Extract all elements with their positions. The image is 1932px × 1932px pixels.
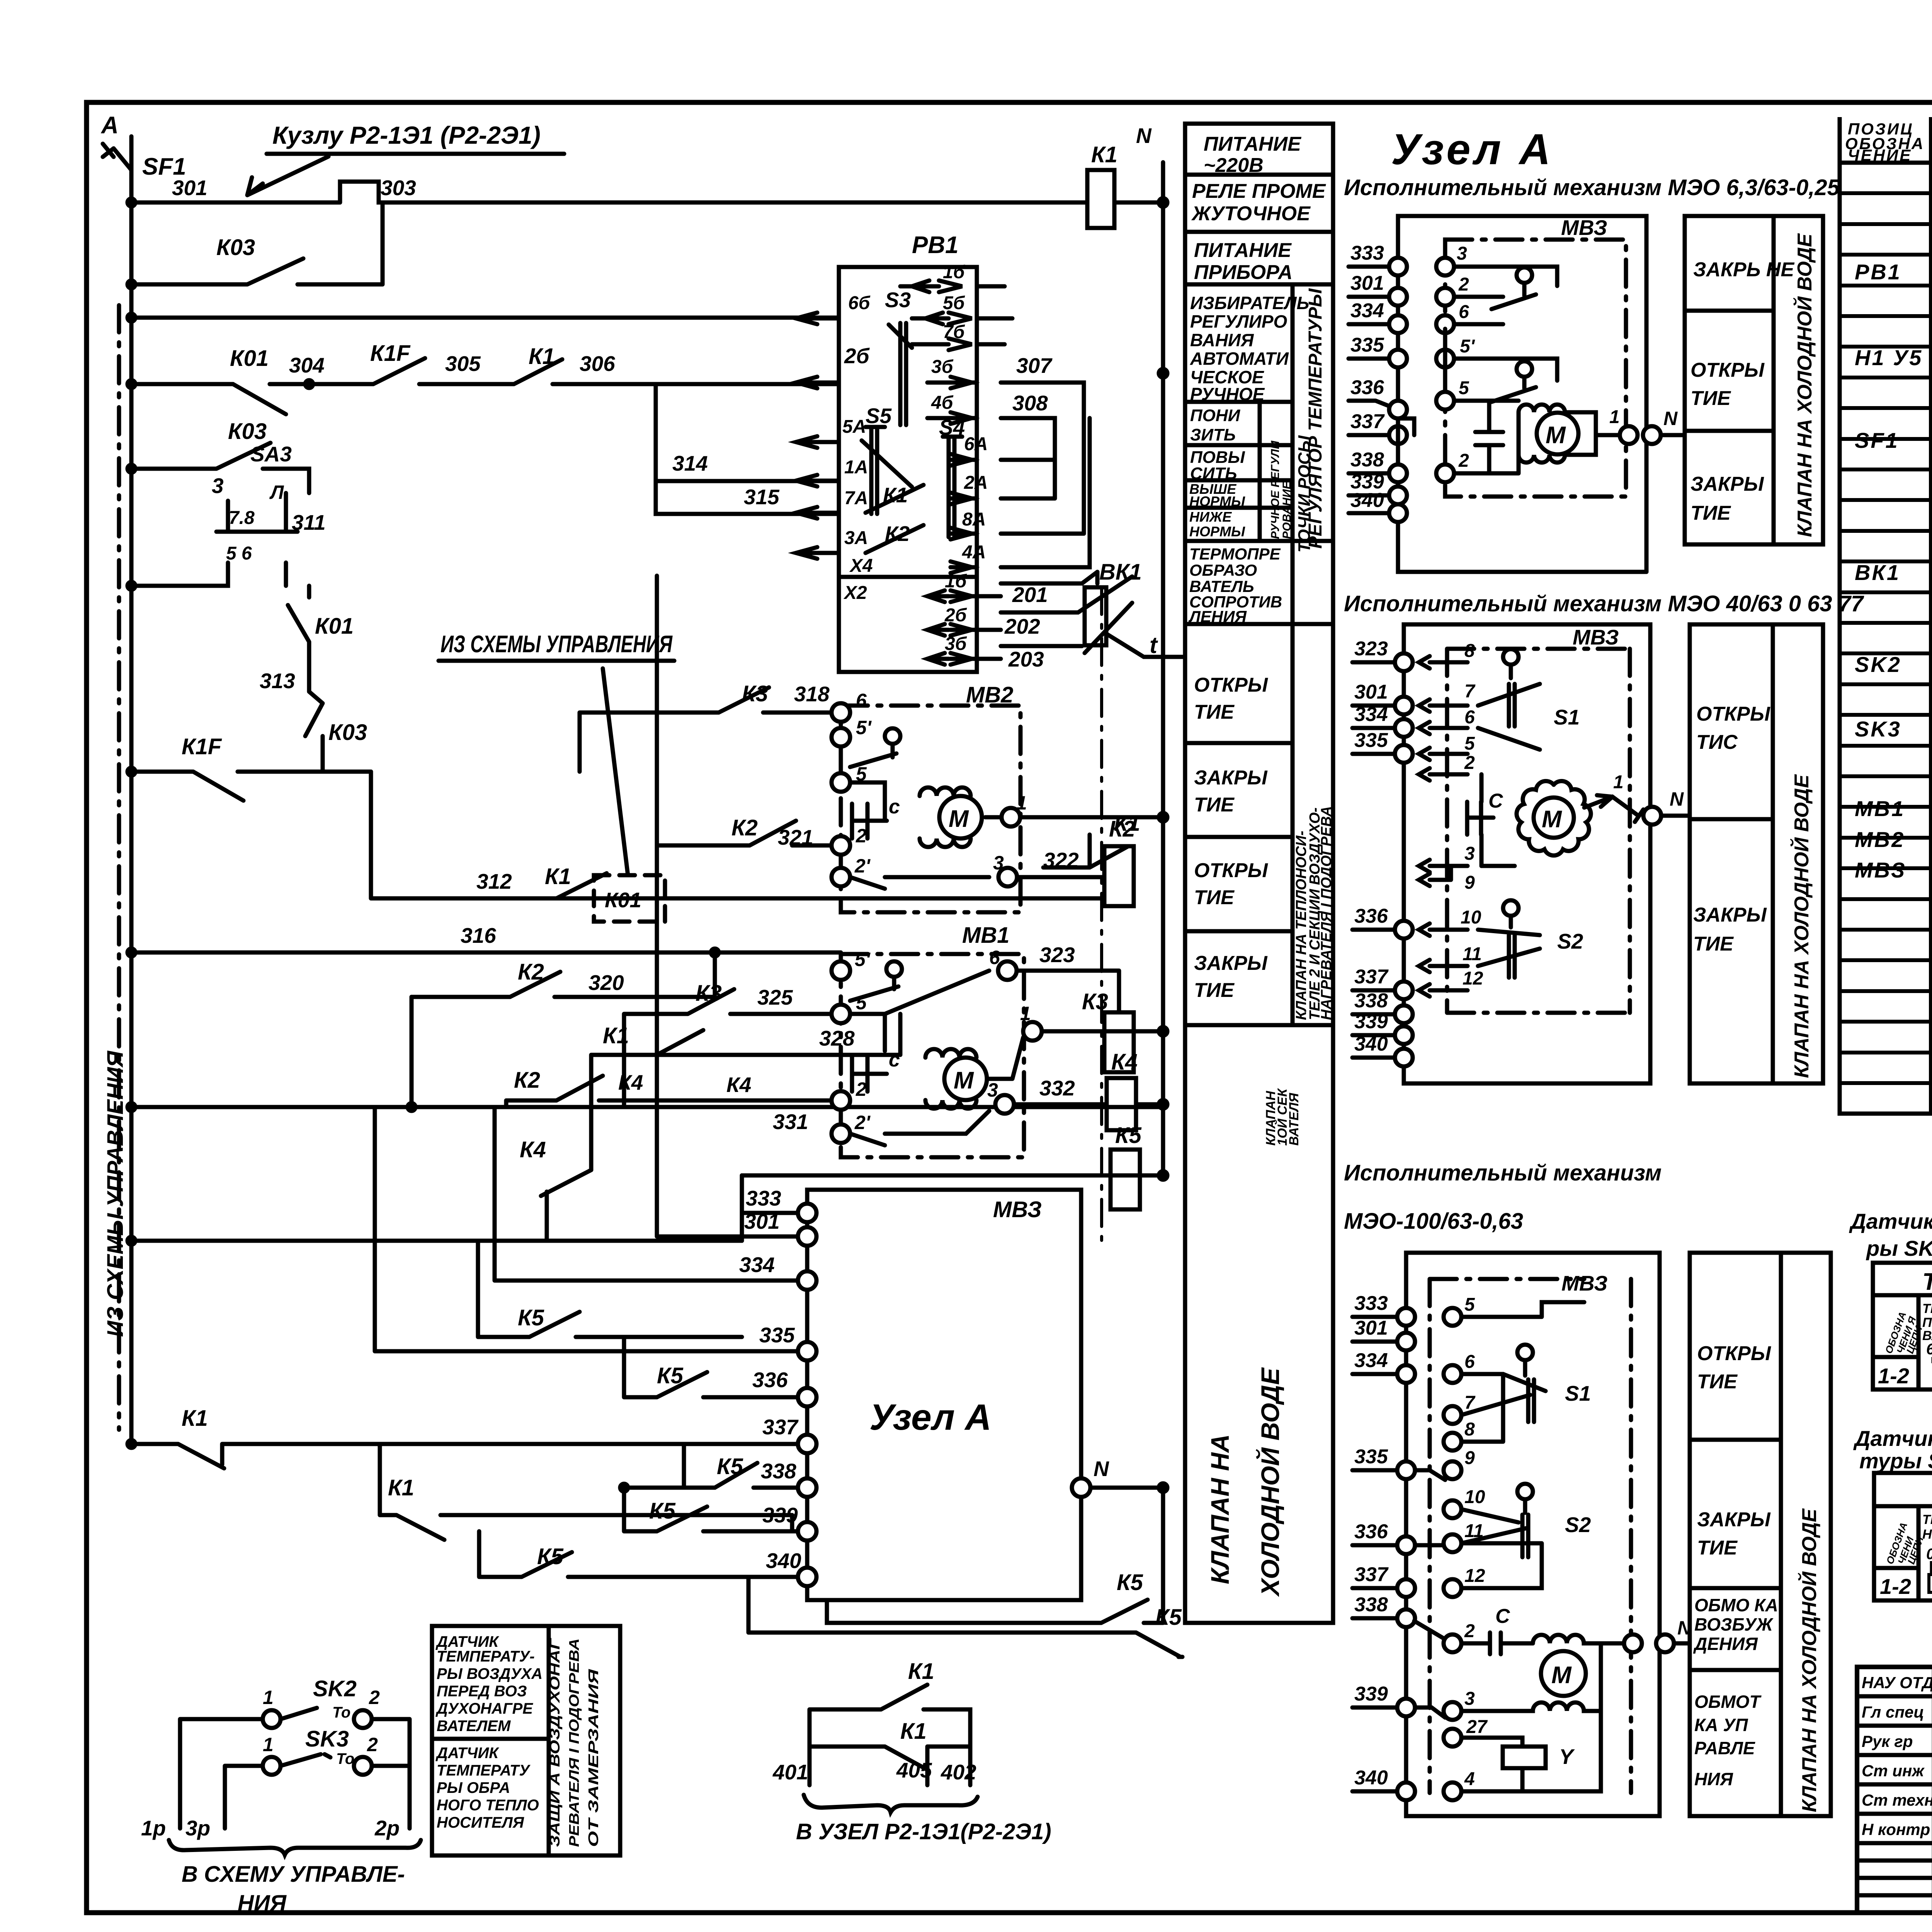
svg-text:8А: 8А (962, 509, 986, 530)
wire 321 contact K2 (657, 815, 832, 898)
svg-text:Н контр: Н контр (1862, 1820, 1930, 1838)
svg-text:ХОЛОДНОЙ ВОДЕ: ХОЛОДНОЙ ВОДЕ (1255, 1367, 1284, 1597)
svg-text:6: 6 (1464, 707, 1475, 728)
svg-text:К03: К03 (228, 419, 267, 444)
svg-text:N: N (1663, 408, 1678, 429)
svg-text:2б: 2б (844, 344, 870, 368)
svg-text:ТИЕ: ТИЕ (1194, 701, 1235, 723)
svg-text:К4: К4 (520, 1137, 546, 1162)
svg-text:338: 338 (1354, 1594, 1388, 1616)
svg-text:5б: 5б (943, 293, 965, 313)
svg-text:336: 336 (1354, 905, 1388, 927)
cell ПОНИЗИТЬ (1190, 406, 1241, 444)
sensor SK2 contact (180, 1676, 410, 1828)
svg-text:РУЧНОЕ: РУЧНОЕ (1190, 384, 1265, 404)
feeder block to Р2-1Э1 with contacts К1 (772, 1659, 1051, 1844)
svg-text:с: с (889, 796, 900, 818)
svg-text:7А: 7А (844, 488, 868, 509)
svg-text:3: 3 (1457, 243, 1467, 264)
wire 338 contact K5 (684, 1444, 807, 1488)
svg-text:К2: К2 (518, 959, 544, 985)
svg-text:РВ1: РВ1 (912, 232, 959, 259)
svg-text:К3: К3 (696, 981, 722, 1006)
svg-text:НИЯ: НИЯ (238, 1891, 287, 1916)
circuit 1 wire 338 + terminal 2 (1349, 449, 1519, 482)
wire 335 (375, 1107, 807, 1351)
svg-text:3: 3 (1464, 844, 1475, 864)
svg-text:339: 339 (1354, 1683, 1388, 1705)
svg-text:ЗАКРЬ НЕ: ЗАКРЬ НЕ (1693, 259, 1794, 281)
svg-text:ЗАКРЫ: ЗАКРЫ (1194, 952, 1268, 975)
svg-text:НИЖЕ: НИЖЕ (1189, 509, 1232, 525)
svg-text:РУЧНОЕ РЕГУЛИ: РУЧНОЕ РЕГУЛИ (1269, 440, 1282, 539)
svg-text:1: 1 (263, 1734, 274, 1755)
svg-text:1: 1 (1613, 772, 1624, 793)
svg-text:ТИЕ: ТИЕ (1194, 979, 1235, 1002)
svg-text:2р: 2р (374, 1816, 400, 1840)
svg-text:1-2: 1-2 (1880, 1574, 1911, 1599)
svg-text:3: 3 (993, 852, 1004, 874)
svg-text:340: 340 (766, 1549, 801, 1573)
svg-text:Ст инж: Ст инж (1862, 1762, 1925, 1780)
svg-text:339: 339 (1354, 1010, 1388, 1033)
svg-text:1: 1 (263, 1687, 274, 1708)
wire 337 contact K1 (128, 1406, 807, 1468)
wire 339 contact K5 (620, 1484, 807, 1531)
svg-text:ПОНИ: ПОНИ (1190, 406, 1241, 425)
svg-text:ОТКРЫ: ОТКРЫ (1697, 1342, 1771, 1365)
wire 303 (128, 176, 1087, 206)
svg-text:3: 3 (212, 474, 224, 498)
svg-text:К1: К1 (1091, 142, 1117, 167)
svg-text:2: 2 (367, 1734, 378, 1755)
terminals on Узел А (798, 1204, 816, 1586)
coil K4 wire 332 (1014, 1049, 1167, 1130)
svg-text:333: 333 (1350, 242, 1384, 264)
svg-text:ЗАКРЫ: ЗАКРЫ (1693, 904, 1767, 926)
svg-text:ИЗБИРАТЕЛЬ: ИЗБИРАТЕЛЬ (1190, 293, 1309, 313)
svg-text:Х2: Х2 (843, 583, 867, 603)
svg-text:То: То (336, 1750, 354, 1767)
circuit 3 contact S2 (1461, 1484, 1591, 1557)
cell ТЕРМОПРЕОБРАЗОВАТЕЛЬ (1188, 545, 1282, 626)
cell ОТКРЫТИЕ 1 (1194, 674, 1268, 723)
contact chain K01 313 K03 (260, 586, 367, 772)
svg-text:1б: 1б (945, 571, 967, 592)
svg-text:5: 5 (1464, 1294, 1475, 1315)
svg-text:301: 301 (1350, 272, 1384, 294)
component table row rules (1840, 163, 1932, 1083)
svg-text:5': 5' (855, 949, 871, 970)
contact K01 bypass box (594, 811, 1140, 922)
sensor SK3 contact (225, 1726, 410, 1828)
svg-text:8: 8 (1464, 641, 1475, 661)
svg-text:SK2: SK2 (1855, 652, 1901, 677)
regulator РВ1 (796, 232, 1012, 672)
svg-text:338: 338 (1350, 449, 1384, 471)
svg-text:То: То (332, 1704, 350, 1721)
wire 312 (371, 772, 1102, 898)
svg-text:Л: Л (269, 481, 284, 503)
svg-text:2': 2' (854, 855, 871, 877)
svg-text:6: 6 (1459, 302, 1469, 322)
svg-text:С: С (1495, 1605, 1510, 1628)
svg-text:4: 4 (1464, 1769, 1475, 1789)
svg-text:К2: К2 (514, 1068, 540, 1093)
svg-text:9: 9 (1464, 872, 1475, 893)
rotated sub labels (1269, 440, 1293, 539)
svg-text:НИЯ: НИЯ (1694, 1769, 1733, 1789)
svg-text:5: 5 (1459, 378, 1469, 398)
svg-text:МЭО-100/63-0,63: МЭО-100/63-0,63 (1344, 1209, 1523, 1234)
terminal N of Узел А (1072, 1457, 1167, 1497)
svg-text:Н1 У5: Н1 У5 (1855, 345, 1923, 370)
svg-text:8: 8 (1464, 1419, 1475, 1440)
svg-text:К5: К5 (657, 1363, 684, 1388)
svg-text:303: 303 (381, 176, 416, 200)
svg-text:К1: К1 (182, 1406, 208, 1431)
thermo sensor BK1 (1001, 560, 1182, 671)
wire 301 (657, 576, 807, 1236)
svg-text:К1: К1 (388, 1475, 414, 1500)
svg-text:301: 301 (1354, 681, 1388, 703)
wires 314 315 (656, 384, 839, 514)
wire 318 contact K3 (580, 681, 841, 772)
svg-text:339: 339 (762, 1503, 798, 1527)
capacitor C (852, 804, 887, 838)
function column frame (1185, 124, 1333, 1623)
wire 336 contact K5 (624, 1337, 807, 1397)
svg-text:3б: 3б (945, 634, 967, 654)
svg-text:2: 2 (855, 1078, 867, 1100)
svg-text:ВАТЕЛЯ: ВАТЕЛЯ (1287, 1092, 1301, 1146)
svg-text:ТЕРМОПРЕ: ТЕРМОПРЕ (1189, 545, 1281, 563)
svg-text:К1F: К1F (182, 734, 222, 759)
svg-text:М: М (1551, 1662, 1572, 1689)
diagram table ТУДЭ 4 (1874, 1473, 1932, 1600)
svg-text:К01: К01 (315, 614, 354, 639)
svg-text:Исполнительный механизм МЭО 6,: Исполнительный механизм МЭО 6,3/63-0,25 (1344, 175, 1840, 200)
svg-text:335: 335 (1354, 1446, 1388, 1468)
svg-text:К5: К5 (537, 1544, 564, 1569)
svg-text:325: 325 (757, 985, 793, 1009)
svg-text:МВЗ: МВЗ (1561, 1271, 1608, 1295)
circuit 3 contact S1 (1461, 1345, 1591, 1422)
svg-text:В СХЕМУ УПРАВЛЕ-: В СХЕМУ УПРАВЛЕ- (182, 1862, 405, 1887)
circuit 3 wire 340 (1352, 1711, 1601, 1800)
svg-text:2: 2 (855, 825, 867, 847)
net label ИЗ СХЕМЫ УПРАВЛЕНИЯ (title) (439, 631, 674, 875)
svg-text:402: 402 (940, 1760, 976, 1784)
svg-text:6: 6 (1464, 1352, 1475, 1372)
node N top (1136, 124, 1167, 1175)
rotated label Клапан на теплоносителе (1293, 806, 1335, 1020)
circuit 2 wires 336 337 (1352, 905, 1482, 972)
circuit 2 contact S1 (1478, 649, 1580, 750)
svg-text:301: 301 (1354, 1317, 1388, 1339)
svg-text:ТИЕ: ТИЕ (1693, 933, 1734, 955)
svg-text:К5: К5 (1117, 1570, 1143, 1595)
svg-text:5: 5 (1464, 733, 1475, 754)
svg-text:4А: 4А (962, 542, 986, 563)
svg-text:337: 337 (1354, 1563, 1389, 1586)
svg-text:Ст техн: Ст техн (1862, 1791, 1932, 1809)
svg-text:К1: К1 (900, 1719, 927, 1744)
svg-text:МВ1: МВ1 (1855, 796, 1905, 821)
svg-text:336: 336 (1350, 376, 1384, 399)
svg-text:307: 307 (1016, 354, 1053, 378)
circuit 1 wire 301 (1349, 272, 1503, 306)
circuit 2 terminals 3 9 (1419, 844, 1515, 893)
svg-text:7: 7 (1464, 1393, 1476, 1413)
wire 340 contact K5 (479, 1531, 807, 1577)
diagram table ТУДЭ 1-2 (1873, 1263, 1932, 1389)
svg-text:ЖУТОЧНОЕ: ЖУТОЧНОЕ (1191, 202, 1311, 225)
cell ЗАКРЫТИЕ 1 (1194, 767, 1268, 816)
svg-text:S1: S1 (1554, 705, 1580, 729)
svg-text:РЕГУЛИРО: РЕГУЛИРО (1190, 311, 1287, 332)
svg-text:27: 27 (1466, 1717, 1488, 1737)
svg-text:КЛАПАН НА ХОЛОДНОЙ ВОДЕ: КЛАПАН НА ХОЛОДНОЙ ВОДЕ (1798, 1508, 1821, 1812)
svg-text:2: 2 (1458, 274, 1469, 295)
svg-text:Датчик темпера: Датчик темпера (1853, 1426, 1932, 1451)
svg-text:с: с (889, 1049, 900, 1071)
svg-text:Узел А: Узел А (1391, 125, 1554, 173)
boundary dash-dot (1100, 587, 1103, 1248)
svg-text:313: 313 (260, 669, 295, 693)
svg-text:К3: К3 (742, 681, 768, 706)
node A section title (1391, 125, 1554, 173)
svg-text:НОРМЫ: НОРМЫ (1189, 524, 1245, 539)
svg-text:1р: 1р (141, 1816, 166, 1840)
svg-text:МВ2: МВ2 (1855, 827, 1905, 852)
svg-text:SA3: SA3 (250, 442, 292, 466)
svg-text:ЛЕНИЯ: ЛЕНИЯ (1188, 607, 1247, 626)
svg-text:2: 2 (1458, 451, 1469, 471)
svg-text:10: 10 (1461, 907, 1481, 928)
svg-text:ОБМОТ: ОБМОТ (1694, 1692, 1762, 1712)
svg-text:ПИТАНИЕ: ПИТАНИЕ (1194, 239, 1292, 262)
svg-text:311: 311 (292, 510, 326, 534)
circuit 1 wire 339 (1349, 471, 1407, 504)
svg-text:3: 3 (1464, 1689, 1475, 1709)
svg-text:320: 320 (588, 971, 624, 995)
svg-text:328: 328 (819, 1026, 855, 1050)
svg-text:337: 337 (1350, 410, 1385, 433)
svg-text:МВЗ: МВЗ (993, 1197, 1042, 1222)
svg-text:К2: К2 (731, 815, 758, 840)
svg-text:ВК1: ВК1 (1855, 560, 1900, 585)
circuit 1 contact S pin2 (1492, 359, 1557, 402)
svg-text:338: 338 (761, 1459, 796, 1483)
svg-text:МВЗ: МВЗ (1855, 858, 1906, 882)
svg-text:~220В: ~220В (1204, 154, 1264, 177)
svg-text:НОГО ТЕПЛОНОСИТЕЛЯ: НОГО ТЕПЛОНОСИТЕЛЯ (1922, 1527, 1932, 1542)
actuator МВ1 (832, 923, 1167, 1157)
svg-text:М: М (1546, 422, 1566, 449)
circuit 2 state column (1690, 624, 1823, 1083)
wire 316 with contact K1F (128, 734, 841, 956)
svg-text:РЫ ОБРА: РЫ ОБРА (437, 1779, 510, 1796)
circuit 1 wire 337 (1349, 410, 1414, 444)
svg-text:РВ1: РВ1 (1855, 260, 1901, 284)
svg-text:ДАТЧИК: ДАТЧИК (435, 1745, 499, 1762)
svg-text:10: 10 (1464, 1487, 1485, 1507)
contact K4 drop (520, 1107, 591, 1241)
cell ПИТАНИЕ ПРИБОРА (1194, 239, 1293, 284)
circuit 1 wire 334 (1349, 299, 1503, 333)
contact K5 drop (478, 1241, 742, 1337)
wire 334 (495, 1107, 807, 1281)
contact K03 with selector SA3 (128, 419, 326, 590)
svg-text:РАВЛЕ: РАВЛЕ (1694, 1738, 1755, 1758)
svg-text:336: 336 (1354, 1520, 1388, 1543)
svg-text:334: 334 (1350, 299, 1384, 322)
svg-text:ЗИТЬ: ЗИТЬ (1190, 425, 1236, 444)
svg-text:322: 322 (1043, 848, 1079, 872)
wire 322 coil K2 (1017, 813, 1167, 906)
svg-text:N: N (1670, 788, 1684, 810)
circuit 3 state column (1690, 1253, 1831, 1816)
svg-text:401: 401 (772, 1760, 808, 1784)
svg-text:К01: К01 (230, 346, 269, 371)
svg-text:3А: 3А (844, 528, 868, 548)
svg-text:333: 333 (1354, 1292, 1388, 1315)
wire 304 305 306 with contacts K01 K1F K1 (128, 341, 839, 414)
svg-text:335: 335 (1354, 729, 1388, 752)
svg-text:К2: К2 (1109, 816, 1135, 842)
circuit 3 wires 336 337 338 (1352, 1520, 1444, 1554)
svg-text:ПРИБОРА: ПРИБОРА (1194, 261, 1293, 284)
svg-text:5': 5' (856, 717, 872, 738)
svg-text:ОБРАЗО: ОБРАЗО (1189, 561, 1257, 579)
svg-text:N: N (1094, 1457, 1109, 1481)
svg-text:202: 202 (1004, 614, 1040, 638)
svg-text:331: 331 (773, 1110, 808, 1134)
svg-text:ОТКРЫ: ОТКРЫ (1696, 703, 1770, 725)
wire 331 contact K4 (506, 1068, 841, 1134)
svg-text:12: 12 (1464, 1566, 1485, 1586)
svg-text:НАГРЕВАТЕЛЯ I ПОДОГРЕВА: НАГРЕВАТЕЛЯ I ПОДОГРЕВА (1318, 806, 1335, 1020)
svg-text:ТИЕ: ТИЕ (1690, 387, 1731, 410)
svg-text:301: 301 (744, 1209, 780, 1233)
component table frame (1840, 117, 1932, 1114)
svg-text:340: 340 (1354, 1767, 1388, 1789)
svg-text:Датчик температу: Датчик температу (1849, 1209, 1932, 1233)
actuator circuit 1 wiring box (1398, 216, 1646, 572)
svg-text:ТИЕ: ТИЕ (1690, 502, 1731, 524)
dash-dot control boundary (117, 305, 121, 1430)
svg-text:S5: S5 (866, 404, 892, 428)
svg-text:337: 337 (762, 1415, 799, 1439)
svg-text:12: 12 (1463, 968, 1483, 989)
svg-text:321: 321 (778, 825, 813, 849)
svg-text:К2: К2 (885, 522, 910, 546)
svg-text:К3: К3 (1082, 989, 1108, 1014)
circuit 1 wire 340 (1349, 489, 1407, 522)
svg-text:2: 2 (1464, 753, 1475, 773)
actuator title МЭО-100/63-0,63 (1344, 1160, 1662, 1234)
svg-text:КЛАПАН НА ХОЛОДНОЙ ВОДЕ: КЛАПАН НА ХОЛОДНОЙ ВОДЕ (1793, 233, 1816, 537)
svg-text:К1: К1 (603, 1023, 629, 1048)
svg-text:340: 340 (1350, 489, 1384, 512)
svg-text:РЫ ВОЗДУХА: РЫ ВОЗДУХА (437, 1665, 543, 1682)
cell ЗАКРЫТИЕ 2 (1194, 952, 1268, 1002)
svg-text:Исполнительный механизм: Исполнительный механизм (1344, 1160, 1662, 1185)
svg-text:S2: S2 (1557, 929, 1583, 953)
svg-text:3р: 3р (185, 1816, 210, 1840)
svg-text:306: 306 (580, 352, 615, 376)
terminal rows on right edge of РВ1 (900, 281, 1005, 292)
svg-text:1А: 1А (844, 457, 868, 478)
svg-text:11: 11 (1464, 1521, 1484, 1541)
svg-text:ОТКРЫ: ОТКРЫ (1194, 674, 1268, 696)
svg-text:6А: 6А (964, 434, 988, 454)
svg-text:ТЕМПЕРАТУ: ТЕМПЕРАТУ (437, 1762, 531, 1779)
svg-text:4б: 4б (931, 393, 954, 413)
svg-text:304: 304 (289, 353, 325, 377)
svg-text:К5: К5 (1155, 1605, 1182, 1630)
svg-text:335: 335 (1350, 334, 1384, 356)
svg-text:334: 334 (1354, 703, 1388, 726)
svg-text:К5: К5 (1115, 1123, 1142, 1148)
rotated label Клапан на холодной воде (big) (1206, 1367, 1284, 1597)
svg-text:ТИЕ: ТИЕ (1194, 886, 1235, 909)
svg-text:305: 305 (445, 352, 481, 376)
actuator circuit 3 wiring box (1406, 1253, 1660, 1816)
svg-text:6: 6 (989, 947, 1000, 968)
svg-text:3: 3 (987, 1079, 998, 1101)
svg-text:11: 11 (1463, 944, 1482, 964)
svg-text:ТУДЭ 1-2: ТУДЭ 1-2 (1922, 1269, 1932, 1295)
svg-text:ОТ ЗАМЕРЗАНИЯ: ОТ ЗАМЕРЗАНИЯ (585, 1669, 601, 1847)
svg-text:ДЕНИЯ: ДЕНИЯ (1693, 1634, 1758, 1654)
svg-text:SK3: SK3 (1855, 717, 1901, 741)
svg-text:ЗАКРЫ: ЗАКРЫ (1690, 473, 1764, 495)
svg-text:НОРМЫ: НОРМЫ (1189, 493, 1245, 509)
circuit 1 wire 336 (1349, 376, 1407, 418)
svg-text:В УЗЕЛ Р2-1Э1(Р2-2Э1): В УЗЕЛ Р2-1Э1(Р2-2Э1) (796, 1819, 1051, 1844)
svg-text:ДУХОНАГРЕ: ДУХОНАГРЕ (435, 1700, 533, 1717)
terminal labels 1р 3р 2р (141, 1816, 421, 1916)
svg-text:НОГО ТЕПЛО: НОГО ТЕПЛО (437, 1797, 539, 1814)
svg-text:К4: К4 (1111, 1049, 1138, 1075)
circuit 2 wires left (1352, 638, 1475, 671)
svg-text:2А: 2А (964, 473, 988, 493)
svg-text:1: 1 (1020, 1003, 1031, 1024)
svg-text:1-2: 1-2 (1878, 1364, 1909, 1388)
svg-text:333: 333 (746, 1186, 781, 1210)
contact K03 upper (128, 202, 383, 288)
svg-text:ОБМО КА: ОБМО КА (1694, 1595, 1778, 1615)
svg-text:ЧЕНИЕ: ЧЕНИЕ (1848, 146, 1912, 164)
svg-text:S2: S2 (1565, 1513, 1591, 1537)
circuit 2 terminal 2 capacitor motor (1419, 753, 1690, 866)
motor M (939, 796, 982, 838)
svg-text:318: 318 (794, 682, 830, 706)
rail 3211 (128, 1175, 742, 1245)
svg-text:К1: К1 (529, 344, 555, 369)
svg-text:1: 1 (1016, 792, 1027, 814)
feeder title Кузлу Р2-1Э1 (247, 121, 564, 195)
cell ВЫШЕ НОРМЫ (1189, 481, 1245, 509)
cell ИЗБИРАТЕЛЬ (1190, 293, 1309, 404)
svg-text:ВОЗБУЖ: ВОЗБУЖ (1694, 1614, 1774, 1634)
svg-text:К5: К5 (518, 1305, 544, 1330)
svg-text:60 С: 60 С (1926, 1341, 1932, 1358)
svg-text:5': 5' (1460, 336, 1475, 357)
svg-text:SK2: SK2 (313, 1676, 357, 1701)
